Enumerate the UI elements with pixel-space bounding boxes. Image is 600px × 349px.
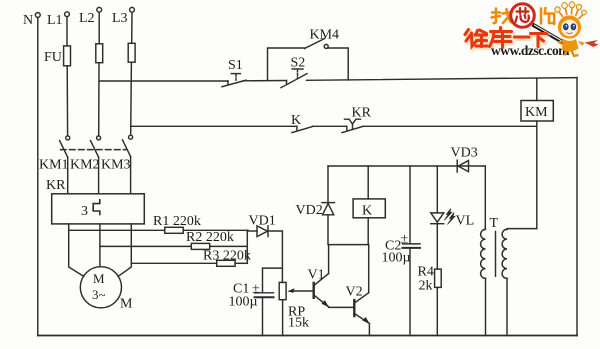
wire K to KR [313,126,347,129]
contact K [292,126,313,132]
svg-text:T: T [490,216,499,231]
contact KM4 bypass loop [268,39,349,81]
resistor R1 220k [165,227,183,233]
watermark weikuyixia shadow [467,29,548,49]
diode VD3 [457,160,468,172]
right frame wire [576,78,578,336]
transformer T core [495,232,497,277]
svg-text:L1: L1 [47,13,63,28]
wire control line L2 to S1 [99,81,228,84]
wire L2 upper [98,12,100,44]
watermark weikuyixia [465,28,547,48]
contact KR thermal [342,119,363,132]
wire V2 collector up [368,245,370,293]
wire C2 to bottom bus [409,248,411,336]
svg-text:KR: KR [352,106,372,121]
thermal element symbol in KR box [93,200,100,215]
diode VD2 [322,166,335,245]
wire mid phase below KR [99,224,101,267]
wire R1 branch [69,229,165,231]
wire V2 emitter to bottom bus [368,324,370,336]
relay coil K box [353,199,385,218]
wire RP to bottom bus [282,300,284,336]
transistor V1 [314,274,329,308]
wire R1 to node [183,229,248,231]
wire L3 upper [131,12,133,43]
resistor R2 220k [191,243,209,249]
capacitor C2 100u [403,244,421,248]
transformer T primary winding [481,229,486,278]
svg-text:M: M [93,271,105,286]
watermark [465,2,599,58]
transformer T secondary winding [502,229,507,278]
svg-text:100µ: 100µ [229,295,258,310]
svg-text:L2: L2 [79,11,95,26]
wire S2 to right frame [307,78,578,81]
wire right phase below KR [118,224,131,277]
svg-text:K: K [362,204,372,219]
motor M [80,267,121,308]
wire C2 column top [409,166,411,244]
svg-text:2k: 2k [419,279,433,294]
pushbutton S1 [222,74,246,87]
svg-text:VD1: VD1 [249,214,276,229]
wire T secondary top to KM column [507,228,537,231]
wire K box top [367,166,369,199]
wire left phase below KR [69,224,84,277]
svg-text:R4: R4 [418,265,434,280]
thermal relay KR box [52,194,145,224]
wire KM box top [536,78,538,100]
svg-text:15k: 15k [288,316,309,331]
svg-text:KM3: KM3 [101,158,131,173]
svg-text:K: K [291,113,301,128]
wire C1 to bottom bus [262,297,264,335]
transistor V2 [354,293,369,324]
svg-text:www.dzsc.com: www.dzsc.com [491,43,570,58]
svg-text:S1: S1 [228,58,243,73]
fuse FU (L3) [128,43,135,62]
wire V1 emitter to V2 base [329,306,355,308]
wire L1 upper [66,17,68,46]
wire VL to R4 [436,224,438,269]
svg-text:R1 220k: R1 220k [153,214,201,229]
watermark magnifier handle [533,25,567,45]
LED VL [431,209,455,225]
svg-text:VD2: VD2 [296,203,323,218]
wire R3 to node [235,262,247,264]
wire V1 collector up [328,245,330,274]
wire VL column top [436,166,438,213]
watermark char xin [516,8,530,22]
svg-text:L3: L3 [112,11,128,26]
wire node to VD1 [247,230,257,232]
potentiometer RP 15k [279,282,286,299]
svg-text:3~: 3~ [92,287,106,302]
contactor coil KM box [521,101,553,122]
watermark char zhao [492,9,514,24]
wire bend to transformer primary [484,166,486,229]
svg-text:KM4: KM4 [310,28,340,43]
svg-text:VD3: VD3 [451,146,478,161]
fuse FU (L2) [96,44,103,63]
diode VD1 [257,226,268,237]
pushbutton S2 [281,69,307,88]
svg-text:100µ: 100µ [382,251,411,266]
wire VD1 to RP column [268,231,282,282]
wire R3 branch [131,262,216,264]
capacitor C1 100u [255,293,274,298]
wire summing node vertical [246,230,248,263]
fuse FU (L1) [64,46,71,66]
wire KR to KM column [363,125,537,127]
watermark char pian [541,8,555,24]
svg-text:S2: S2 [291,56,306,71]
node N terminal [35,13,40,18]
wire L3 lower [130,62,133,134]
svg-text:FU: FU [44,50,62,65]
svg-text:N: N [23,13,33,28]
wire R4 to bottom bus [436,287,438,335]
svg-text:R3 220k: R3 220k [203,249,251,264]
wire K box bottom [367,218,369,245]
wire branch to C1 [263,268,283,293]
watermark mascot [555,2,599,56]
wire DC bus [328,165,485,167]
svg-text:VL: VL [456,214,475,229]
wire N vertical [37,17,39,335]
wire R2 to node [210,245,248,247]
svg-text:KR: KR [46,178,66,193]
svg-text:M: M [120,297,133,312]
wire T secondary to bottom bus [506,278,508,335]
resistor R3 220k [217,260,235,266]
wire control line L3 to K [131,126,297,129]
watermark magnifier ring [511,4,535,28]
svg-text:3: 3 [81,204,88,219]
wire L1 lower [66,66,68,136]
svg-text:V2: V2 [346,285,363,300]
resistor R4 2k [435,269,442,287]
wire collector node link [329,244,369,246]
wire R2 branch [100,245,191,247]
svg-text:R2 220k: R2 220k [186,230,234,245]
node L1 terminal [65,12,70,17]
bottom bus wire [38,335,577,337]
node L2 terminal [97,7,102,12]
svg-text:V1: V1 [308,268,325,283]
wire KM box bottom to secondary [536,121,538,229]
svg-text:KM1: KM1 [39,158,69,173]
wire L2 lower [98,63,100,136]
wire S1 to S2 [243,81,287,84]
node L3 terminal [130,7,135,12]
wire T primary to bottom bus [485,278,487,335]
contact KM1 [60,136,70,194]
contact KM3 [123,135,133,194]
svg-text:KM: KM [525,105,548,120]
dashed linkage KM1-KM3 [61,149,127,151]
wiper arrow RP to V1 base [287,288,313,293]
svg-text:KM2: KM2 [70,158,100,173]
svg-text:±: ± [401,232,409,247]
contact KM2 [91,136,101,194]
